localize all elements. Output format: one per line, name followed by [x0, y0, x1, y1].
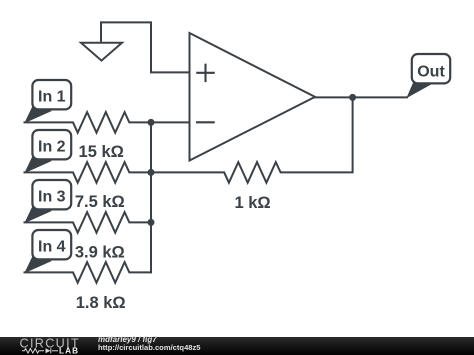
svg-text:In 2: In 2 — [38, 138, 66, 155]
svg-text:1.8 kΩ: 1.8 kΩ — [76, 294, 126, 312]
svg-text:In 4: In 4 — [38, 238, 66, 255]
svg-text:In 3: In 3 — [38, 188, 66, 205]
flag Out — [406, 54, 450, 98]
svg-text:1 kΩ: 1 kΩ — [235, 194, 271, 212]
flag In 4 — [24, 230, 71, 273]
logo diode symbol — [46, 348, 51, 353]
resistor R3 3.9 kΩ with input wire — [25, 212, 152, 233]
op-amp plus symbol — [197, 65, 213, 81]
svg-text:Out: Out — [417, 63, 445, 80]
junction node output/feedback — [349, 94, 356, 101]
junction node R2/feedback — [148, 169, 155, 176]
ground — [81, 43, 122, 61]
junction node R3 — [148, 219, 155, 226]
resistor R5 1 kΩ feedback with wires — [151, 97, 353, 182]
wire inverting input (bus to op-amp) — [151, 121, 189, 123]
flag In 3 — [24, 180, 71, 223]
flag In 1 — [24, 80, 71, 123]
resistor R4 1.8 kΩ with input wire — [25, 262, 152, 283]
svg-text:7.5 kΩ: 7.5 kΩ — [75, 193, 125, 211]
op-amp U1 — [190, 33, 316, 161]
svg-text:In 1: In 1 — [38, 88, 66, 105]
flag In 2 — [24, 130, 71, 173]
junction node R1/inverting input — [148, 119, 155, 126]
wire summing bus vertical — [150, 122, 152, 272]
logo resistor zigzag — [22, 349, 44, 354]
wire ground to op-amp non-inverting input — [101, 22, 189, 72]
svg-text:http://circuitlab.com/ctq48z5: http://circuitlab.com/ctq48z5 — [98, 343, 201, 352]
svg-text:15 kΩ: 15 kΩ — [79, 143, 124, 161]
svg-text:LAB: LAB — [59, 347, 79, 355]
wire op-amp output — [315, 96, 407, 98]
resistor R2 7.5 kΩ with input wire — [25, 162, 152, 183]
resistor R1 15 kΩ with input wire — [25, 112, 152, 133]
svg-text:3.9 kΩ: 3.9 kΩ — [75, 244, 125, 262]
op-amp minus symbol — [197, 121, 214, 123]
